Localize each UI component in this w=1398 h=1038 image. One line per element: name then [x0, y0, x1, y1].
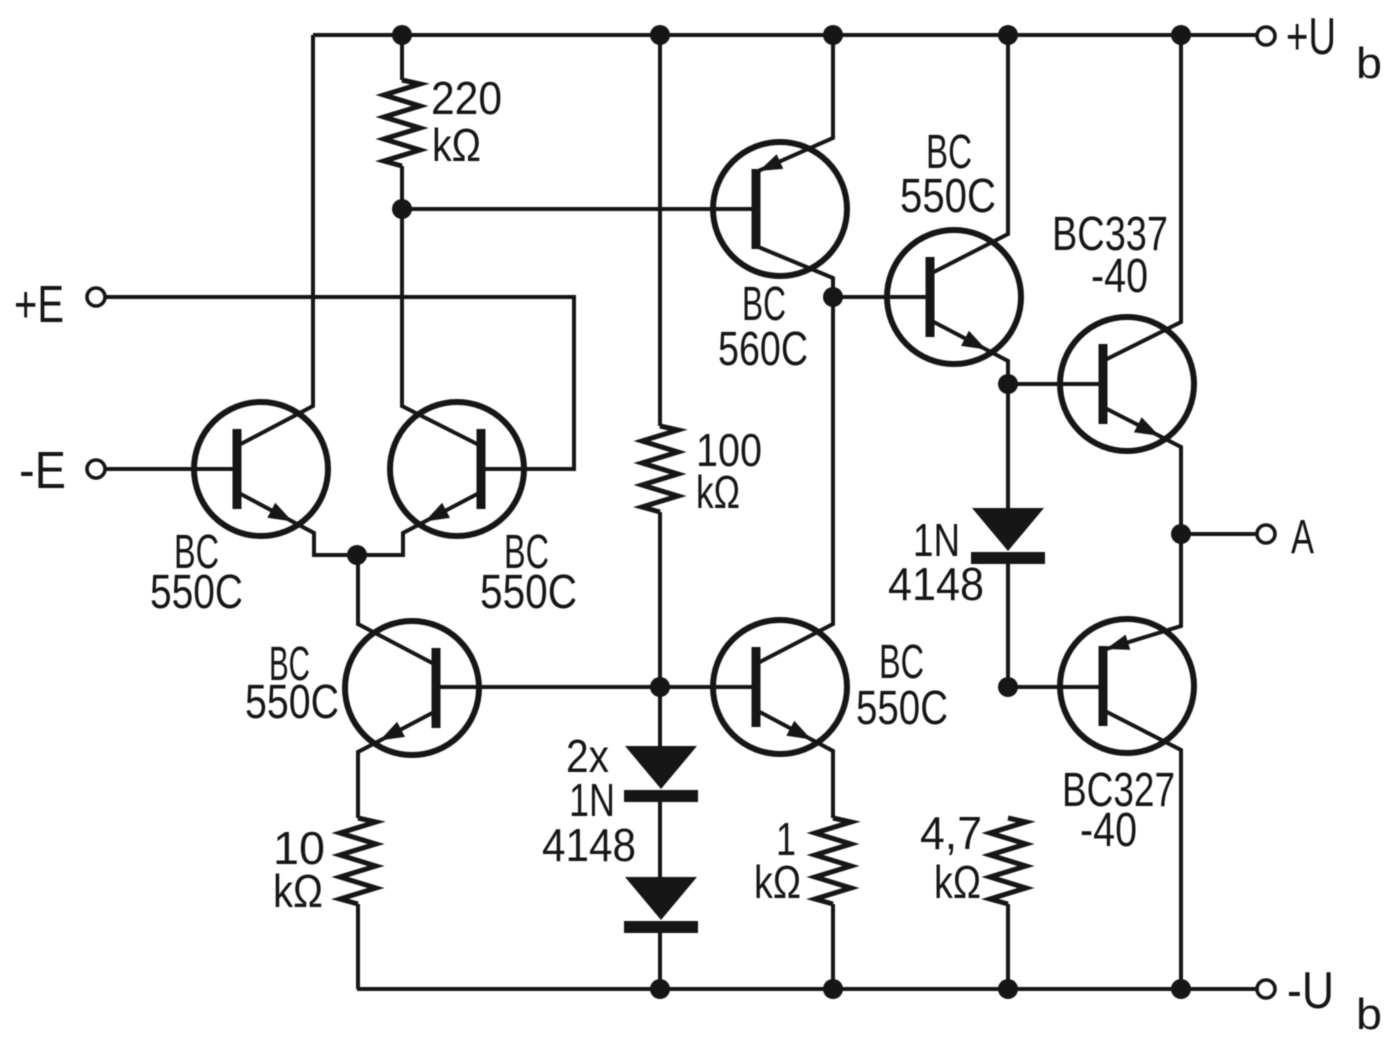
label D3 1N4148: [888, 514, 984, 610]
svg-text:kΩ: kΩ: [754, 856, 801, 908]
diode D1 1N4148: [624, 686, 698, 802]
svg-text:A: A: [1291, 511, 1314, 564]
transistor Q8 BC327-40 (output PNP): [1060, 619, 1194, 753]
node R1 bottom / Q5 base: [392, 199, 412, 219]
node R1 top: [392, 25, 412, 45]
wire Q5 base from R1: [402, 207, 756, 211]
label Q8 BC327-40: [1062, 764, 1175, 857]
wire Q3 emitter to 10k: [358, 711, 436, 818]
svg-text:550C: 550C: [900, 170, 996, 223]
label R4 1k: [754, 813, 801, 908]
arrow Q6 emitter: [961, 331, 986, 350]
label R3 10k: [273, 822, 325, 917]
arrow Q3 emitter: [380, 722, 405, 741]
label Q7 BC337-40: [1052, 208, 1168, 303]
svg-text:4148: 4148: [542, 819, 636, 871]
arrow Q8 emitter (PNP): [1106, 635, 1130, 650]
wire Q4 collector: [756, 297, 833, 664]
wire Q6 base: [833, 295, 930, 299]
resistor R5 4.7k: [990, 818, 1026, 989]
wire Q3 collector to emitters node: [358, 555, 436, 665]
svg-text:b: b: [1356, 990, 1382, 1038]
label Q6 BC550C: [900, 126, 996, 223]
terminal +Ub: [1257, 8, 1382, 88]
resistor R2 100k: [642, 35, 678, 686]
wire -E input: [105, 467, 237, 471]
svg-text:-U: -U: [1287, 962, 1334, 1020]
svg-text:4,7: 4,7: [920, 807, 982, 859]
node Q6 emitter / Q7 base: [998, 374, 1018, 394]
wire Q7 base: [1008, 382, 1103, 386]
svg-text:-40: -40: [1080, 804, 1137, 857]
wire +Ub top rail: [313, 33, 1257, 37]
svg-text:550C: 550C: [856, 682, 948, 735]
node top rail x833: [823, 25, 843, 45]
transistor Q4 BC550C (VAS): [713, 620, 847, 754]
svg-text:4148: 4148: [888, 558, 984, 610]
arrow Q1 emitter: [267, 503, 292, 522]
transistor Q2 BC550C (non-inverting input): [390, 402, 524, 536]
diode D3 1N4148: [971, 384, 1045, 687]
label Q3 BC550C: [245, 638, 339, 729]
svg-text:-40: -40: [1091, 250, 1148, 303]
wire Q8 collector to -Ub: [1103, 710, 1181, 989]
resistor R1 220k: [384, 35, 420, 209]
transistor Q5 BC560C (PNP level shift): [713, 142, 847, 276]
wire Q6 collector to +Ub: [930, 35, 1008, 274]
wire node A to terminal: [1181, 532, 1257, 536]
node top rail x1181: [1171, 25, 1191, 45]
node bottom rail x1181: [1171, 979, 1191, 999]
node top rail x1008: [998, 25, 1018, 45]
terminal +E: [14, 276, 105, 334]
arrow Q5 emitter (PNP): [759, 154, 783, 171]
terminal -Ub: [1257, 962, 1382, 1038]
node R2 bottom / bias line: [650, 677, 670, 697]
wire Q7 collector to +Ub: [1103, 35, 1181, 361]
transistor Q1 BC550C (inverting input): [194, 402, 328, 536]
svg-text:550C: 550C: [150, 566, 243, 619]
wire Q2 emitter: [357, 492, 481, 555]
node D3 bottom / Q8 base: [998, 677, 1018, 697]
diode D2 1N4148: [624, 802, 698, 989]
svg-text:-E: -E: [19, 442, 66, 500]
terminal A (output): [1257, 511, 1314, 564]
wire Q8 base: [1008, 685, 1103, 689]
label Q5 BC560C: [718, 278, 808, 376]
svg-text:550C: 550C: [480, 566, 577, 619]
label Q4 BC550C: [856, 636, 948, 735]
label R2 100k: [696, 424, 762, 518]
label D1 D2 2x 1N4148: [542, 730, 636, 871]
svg-text:b: b: [1356, 39, 1382, 88]
wire Q5 collector: [756, 246, 833, 297]
wire -Ub bottom rail: [357, 987, 1257, 991]
wire Q1 collector to +Ub: [237, 35, 313, 446]
node Q5 collector / Q6 base: [823, 287, 843, 307]
node bottom rail x1008: [998, 979, 1018, 999]
svg-text:560C: 560C: [718, 323, 808, 376]
resistor R4 1k: [815, 818, 851, 989]
wire Q7 emitter to output: [1103, 407, 1181, 534]
label R1 220k: [431, 72, 502, 171]
transistor Q6 BC550C (driver): [887, 230, 1021, 364]
wire Q8 emitter from A: [1103, 534, 1181, 650]
arrow Q4 emitter: [786, 721, 811, 740]
wire +E input: [105, 297, 574, 469]
label R5 4.7k: [920, 807, 982, 908]
resistor R3 10k: [340, 818, 376, 989]
node bottom rail x660: [650, 979, 670, 999]
label Q1 BC550C: [150, 526, 243, 619]
wire Q5 emitter to +Ub: [756, 35, 833, 172]
node diff-pair emitters: [347, 545, 367, 565]
arrow Q7 emitter: [1134, 417, 1159, 436]
transistor Q3 BC550C (tail current source): [345, 621, 479, 755]
node R2 top: [650, 25, 670, 45]
wire Q3 base line: [436, 685, 756, 689]
transistor Q7 BC337-40 (output NPN): [1060, 317, 1194, 451]
wire Q4 emitter to 1k: [756, 710, 833, 818]
wire Q6 emitter: [930, 320, 1008, 384]
arrow Q2 emitter: [425, 503, 450, 522]
terminal -E: [19, 442, 105, 500]
wire Q2 collector to 220k node: [402, 209, 481, 446]
svg-text:kΩ: kΩ: [273, 865, 323, 917]
svg-text:550C: 550C: [245, 676, 339, 729]
node A output: [1171, 524, 1191, 544]
svg-text:kΩ: kΩ: [934, 856, 981, 908]
label Q2 BC550C: [480, 526, 577, 619]
svg-text:+E: +E: [14, 276, 64, 334]
svg-text:220: 220: [431, 72, 502, 124]
node bottom rail x833: [823, 979, 843, 999]
wire Q1 emitter: [237, 492, 357, 555]
svg-text:+U: +U: [1286, 8, 1336, 66]
svg-text:kΩ: kΩ: [432, 119, 481, 171]
svg-text:kΩ: kΩ: [696, 466, 740, 518]
